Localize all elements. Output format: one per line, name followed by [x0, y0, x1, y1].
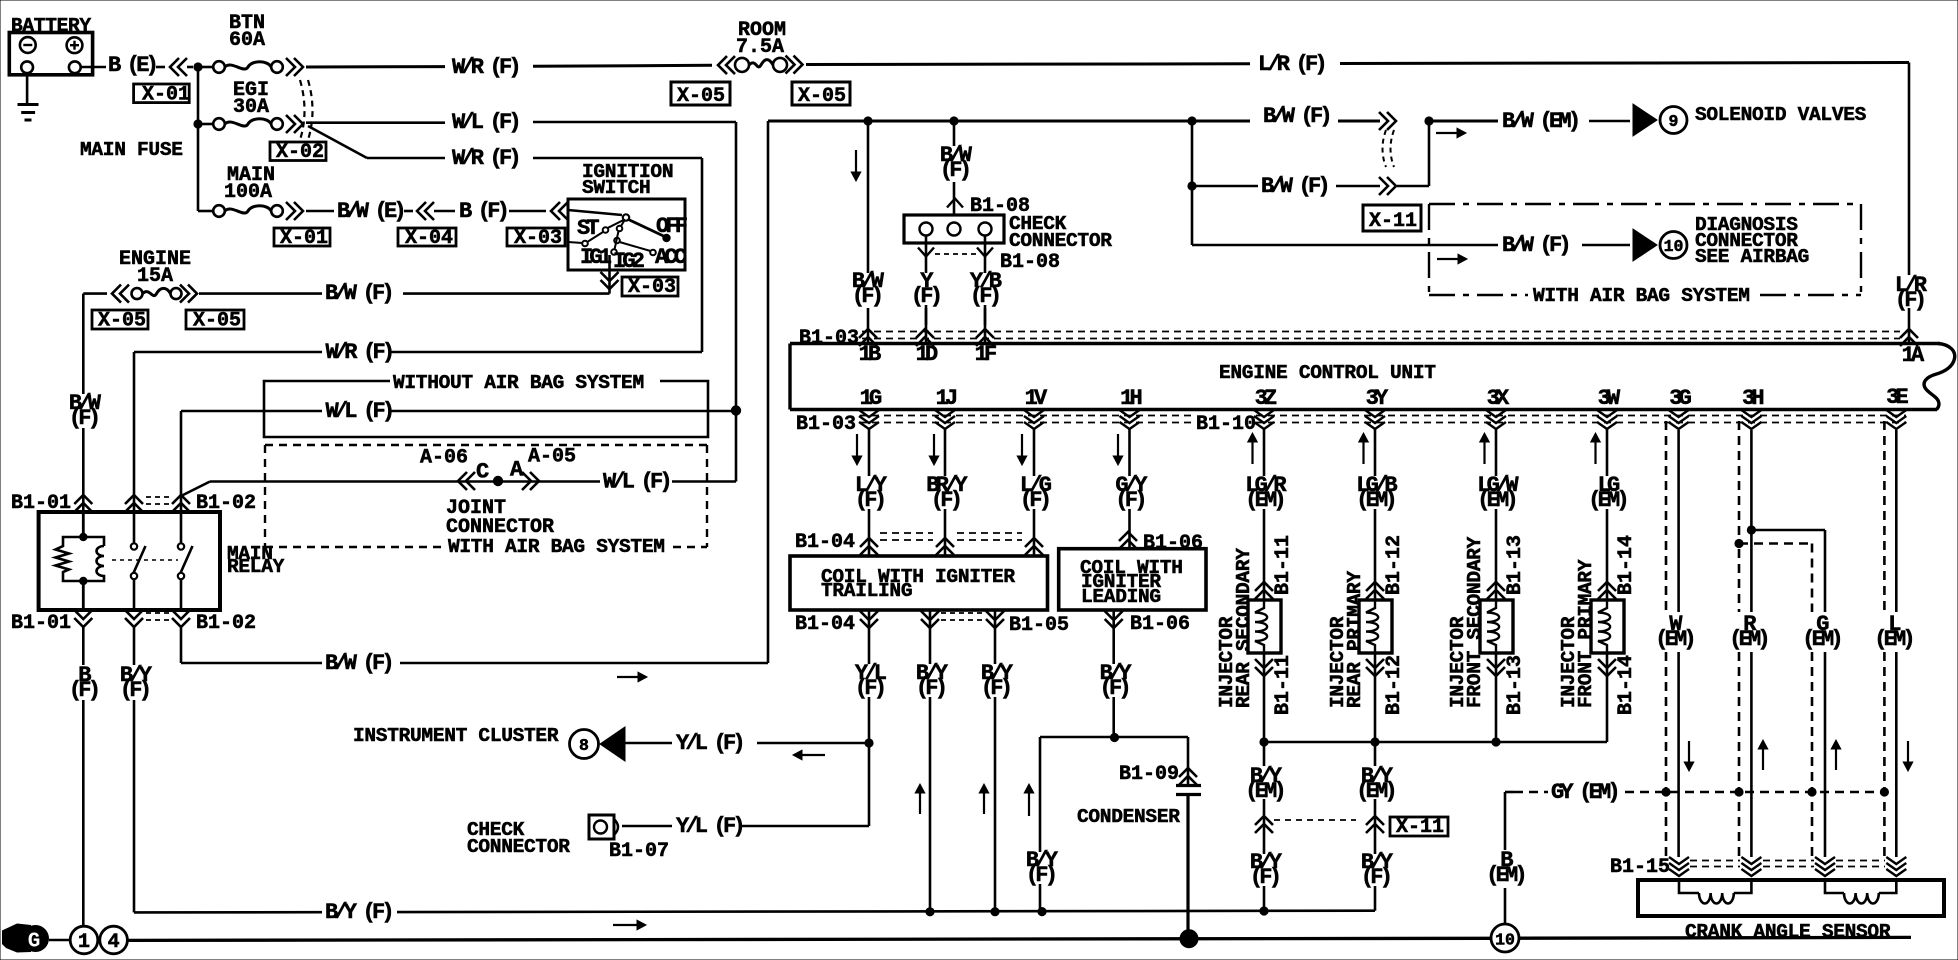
svg-text:B1-05: B1-05 [1009, 614, 1069, 637]
svg-text:B1-09: B1-09 [1119, 763, 1179, 786]
svg-text:(EM): (EM) [1729, 627, 1767, 652]
svg-text:W/R (F): W/R (F) [452, 146, 518, 171]
svg-text:9: 9 [1669, 112, 1679, 131]
svg-text:(F): (F) [69, 678, 98, 703]
svg-text:WITH AIR BAG SYSTEM: WITH AIR BAG SYSTEM [448, 536, 665, 558]
connector chevron at ECU pin 1A [1900, 329, 1918, 346]
wire B/Y (EM) injector rear 1 [1263, 742, 1266, 766]
connector box X-03 (2) [622, 277, 678, 296]
svg-text:1F: 1F [975, 342, 996, 367]
check connector B1-07 [589, 815, 614, 839]
wire Y/L (F) trailing coil output [868, 610, 871, 664]
connector dashed arcs X-11 [1383, 130, 1387, 167]
wire B/Y (F) condenser left [1039, 737, 1042, 912]
ignition switch OFF position [662, 234, 670, 242]
wire B/W (F) to ECU 1B [867, 121, 870, 274]
svg-text:RELAY: RELAY [227, 556, 285, 578]
connector B1-04 chevron 1G [860, 538, 878, 555]
connector X-11 chevron row1 [1379, 112, 1396, 130]
main relay [39, 512, 220, 610]
svg-text:3H: 3H [1742, 386, 1763, 411]
svg-text:1H: 1H [1120, 386, 1141, 411]
wire W/L vertical to relay x181 [180, 411, 183, 512]
svg-text:L/R (F): L/R (F) [1258, 52, 1324, 77]
svg-text:7.5A: 7.5A [736, 36, 784, 59]
flow arrow [1437, 258, 1460, 260]
svg-text:B/W (F): B/W (F) [325, 651, 391, 676]
svg-text:B1-12: B1-12 [1383, 535, 1406, 595]
wire B (F) [434, 210, 455, 213]
svg-text:1: 1 [78, 931, 90, 954]
ground circle 4 [100, 926, 128, 954]
wire B/W (E) [306, 210, 334, 213]
connector box X-05 (3) [92, 310, 148, 329]
svg-text:(F): (F) [1361, 865, 1390, 890]
svg-text:W/L (F): W/L (F) [603, 470, 669, 495]
connector box X-05 (1) [671, 82, 730, 105]
flow arrow B/W [617, 676, 640, 678]
svg-text:B1-07: B1-07 [609, 840, 669, 863]
wire Y/B (F) [964, 273, 1004, 305]
relay contact 2 [180, 512, 183, 543]
wire Y/L (F) to check connector B1-07 [740, 825, 869, 828]
svg-text:B/W (F): B/W (F) [325, 281, 391, 306]
svg-text:B1-03: B1-03 [796, 413, 856, 436]
connector X-03 chevron [551, 202, 568, 220]
ignition switch contact ST [582, 241, 588, 247]
svg-text:FRONT PRIMARY: FRONT PRIMARY [1575, 559, 1597, 708]
svg-text:TRAILING: TRAILING [821, 580, 912, 602]
svg-text:Y/L (F): Y/L (F) [676, 814, 742, 839]
wire 3H dashed [1738, 421, 1741, 538]
svg-text:X-11: X-11 [1369, 210, 1417, 233]
engine control unit [1924, 344, 1955, 410]
svg-text:B (E): B (E) [108, 53, 156, 78]
svg-text:(F): (F) [69, 406, 98, 431]
injector front secondary B1-13 [1495, 428, 1498, 476]
svg-text:CONNECTOR: CONNECTOR [467, 836, 570, 858]
connector dashed arcs X-02 [300, 80, 305, 140]
svg-text:CONDENSER: CONDENSER [1077, 806, 1180, 828]
svg-text:B1-03: B1-03 [799, 327, 859, 350]
svg-text:60A: 60A [229, 29, 265, 52]
circuit ref 10 (bottom) [1491, 924, 1519, 952]
coil with igniter trailing [790, 556, 1048, 610]
svg-text:G: G [28, 931, 41, 954]
wire diagonal EGI to W/R row [308, 126, 367, 158]
connector X-11 chevron row2 [1379, 177, 1396, 195]
svg-text:B1-14: B1-14 [1615, 655, 1638, 715]
wire W/R vertical to relay x134 [133, 352, 136, 512]
circuit ref 8 instrument cluster [570, 730, 599, 759]
wire L/G (F) pin 1V [1033, 428, 1036, 476]
wire G/Y (F) pin 1H [1128, 428, 1131, 476]
svg-text:(F): (F) [970, 284, 999, 309]
wire G (EM) solid branch [1751, 529, 1825, 532]
wire L/R (F) vertical right [1908, 63, 1911, 276]
svg-text:B1-04: B1-04 [795, 531, 855, 554]
wire Y (F) [908, 273, 942, 305]
connector box X-01 (2) [274, 228, 330, 246]
wire B/Y (F) coil 2 [994, 610, 997, 664]
svg-text:INSTRUMENT CLUSTER: INSTRUMENT CLUSTER [353, 725, 559, 747]
connector box X-01 [134, 84, 190, 103]
svg-text:X-04: X-04 [405, 227, 453, 250]
svg-text:X-05: X-05 [98, 310, 146, 333]
box WITH AIR BAG SYSTEM (dashed) [265, 444, 707, 446]
svg-text:W/L (F): W/L (F) [326, 399, 392, 424]
wire W/L vertical x736 [735, 122, 738, 482]
wire B (EM) to circle 10 [1504, 792, 1507, 850]
dash-dot box WITH AIR BAG SYSTEM (right) [1429, 203, 1861, 205]
svg-text:LEADING: LEADING [1081, 586, 1161, 608]
injector front primary B1-14 [1606, 428, 1609, 476]
wire ground stub [49, 939, 71, 942]
svg-text:CONNECTOR: CONNECTOR [1009, 230, 1112, 252]
injector rear secondary B1-11 [1263, 428, 1266, 476]
svg-text:X-05: X-05 [193, 310, 241, 333]
svg-text:WITH AIR BAG SYSTEM: WITH AIR BAG SYSTEM [1533, 285, 1750, 307]
svg-text:X-02: X-02 [276, 141, 324, 164]
svg-text:Y/L (F): Y/L (F) [676, 731, 742, 756]
svg-text:X-05: X-05 [798, 85, 846, 108]
svg-text:B/W (E): B/W (E) [337, 199, 403, 224]
svg-text:(EM): (EM) [1874, 627, 1912, 652]
wire vertical x702 [701, 158, 704, 352]
svg-text:W/R (F): W/R (F) [326, 340, 392, 365]
wire 3E dashed [1883, 421, 1886, 612]
wire B/Y (F) leading coil output [1112, 610, 1115, 664]
circuit ref 10 diagnosis connector [1660, 232, 1687, 259]
wire BR/Y (F) pin 1J [944, 428, 947, 476]
wire B/Y (F) bottom row [134, 911, 322, 914]
svg-text:X-01: X-01 [142, 84, 190, 107]
svg-text:IG1: IG1 [580, 245, 612, 270]
svg-text:FRONT SECONDARY: FRONT SECONDARY [1464, 536, 1486, 708]
arrow to solenoid valves [1633, 104, 1657, 136]
wire B/W (F) vertical to relay coil [82, 294, 85, 394]
svg-text:100A: 100A [224, 181, 272, 204]
connector X-03 chevron (ignition) [601, 272, 619, 289]
box WITHOUT AIR BAG SYSTEM [264, 381, 708, 437]
svg-text:SWITCH: SWITCH [582, 177, 650, 199]
wire W/R (F) to ignition area [367, 157, 445, 160]
condenser [1176, 784, 1201, 787]
svg-text:X-03: X-03 [628, 276, 676, 299]
connector B1-09 chevron [1187, 737, 1190, 786]
svg-text:B1-14: B1-14 [1615, 535, 1638, 595]
svg-text:(F): (F) [911, 284, 940, 309]
svg-text:B1-08: B1-08 [1000, 251, 1060, 274]
svg-text:X-05: X-05 [677, 85, 725, 108]
svg-text:(EM): (EM) [1486, 863, 1524, 888]
svg-text:ENGINE CONTROL UNIT: ENGINE CONTROL UNIT [1219, 362, 1436, 384]
svg-text:B1-13: B1-13 [1504, 655, 1527, 715]
wire B/W vertical x768 [767, 121, 770, 663]
wire W (EM) solid [1677, 430, 1680, 612]
wire L (EM) solid [1895, 430, 1898, 612]
svg-text:B1-12: B1-12 [1383, 655, 1406, 715]
ground (battery) [26, 73, 29, 104]
joint connector A-06 chevron [458, 472, 475, 490]
node: main fuse bus [193, 62, 202, 71]
wire W/L (F) row (EGI output) [306, 121, 445, 124]
svg-text:X-11: X-11 [1396, 816, 1444, 839]
svg-text:10: 10 [1495, 931, 1515, 950]
svg-text:15A: 15A [137, 265, 173, 288]
svg-text:(F): (F) [1250, 865, 1279, 890]
svg-text:B1-06: B1-06 [1143, 532, 1203, 555]
svg-text:OFF: OFF [656, 214, 687, 239]
svg-text:(EM): (EM) [1655, 627, 1693, 652]
connector box X-04 [398, 228, 456, 246]
svg-text:W/L (F): W/L (F) [452, 110, 518, 135]
connector X-11 dashed link [1274, 819, 1356, 821]
arrow to instrument cluster [600, 727, 625, 761]
ignition switch output wire [608, 255, 611, 294]
circuit ref 9 solenoid valves [1660, 107, 1687, 134]
wire B/W (F) relay output row [180, 625, 183, 663]
wire W/R (F) row1 [306, 65, 445, 68]
flow arrow [1436, 132, 1459, 134]
svg-text:A-05: A-05 [528, 446, 576, 469]
wire B/Y (F) relay output [133, 625, 136, 665]
svg-text:30A: 30A [233, 96, 269, 119]
joint connector A-05 chevron [522, 472, 539, 490]
connector B1-08 chevron (top) [947, 199, 963, 208]
svg-text:B1-13: B1-13 [1504, 535, 1527, 595]
svg-text:A-06: A-06 [420, 447, 468, 470]
connector B1-06 (bottom) [1105, 611, 1123, 628]
svg-text:W/R (F): W/R (F) [452, 55, 518, 80]
svg-text:B1-06: B1-06 [1130, 613, 1190, 636]
svg-text:(F): (F) [940, 158, 969, 183]
wire diagonal to B1-02 [181, 482, 210, 497]
wire B/Y (EM) injector rear 2 [1374, 742, 1377, 766]
connector box X-05 (4) [186, 310, 244, 329]
connector box X-03 [507, 228, 565, 246]
relay coil branch [82, 512, 85, 537]
svg-text:10: 10 [1664, 237, 1684, 256]
svg-text:ACC: ACC [655, 245, 687, 270]
svg-text:1J: 1J [936, 386, 956, 411]
connector X-04 chevron [417, 202, 434, 220]
wire GY (EM) dashed [1505, 791, 1514, 794]
svg-text:REAR SECONDARY: REAR SECONDARY [1233, 548, 1255, 708]
svg-text:SOLENOID VALVES: SOLENOID VALVES [1695, 104, 1867, 126]
svg-text:IG2: IG2 [613, 249, 644, 274]
svg-text:B (F): B (F) [459, 199, 507, 224]
svg-text:MAIN FUSE: MAIN FUSE [80, 139, 183, 161]
svg-text:B/W (EM): B/W (EM) [1502, 109, 1578, 134]
node W/L junction [731, 405, 741, 415]
svg-text:REAR PRIMARY: REAR PRIMARY [1344, 571, 1366, 708]
wire Y/L (F) to cluster [625, 742, 672, 745]
connector box X-05 (2) [792, 82, 850, 105]
svg-text:8: 8 [579, 736, 589, 755]
ground G [2, 924, 31, 953]
svg-text:B1-10: B1-10 [1196, 413, 1256, 436]
wire condenser top [1040, 736, 1188, 739]
wire G dashed branch [1739, 542, 1812, 545]
svg-text:CONNECTOR: CONNECTOR [446, 516, 554, 539]
connector X-01 chevron [170, 58, 187, 76]
connector B1-06 chevron top [1119, 532, 1137, 549]
svg-text:WITHOUT AIR BAG SYSTEM: WITHOUT AIR BAG SYSTEM [393, 372, 644, 394]
wire W/L (F) row y411 [181, 410, 322, 413]
connector B1-05 (bottom) [921, 611, 939, 628]
svg-text:4: 4 [108, 931, 120, 954]
ground circle 1 [70, 926, 98, 954]
connector box X-11 (2) [1390, 817, 1448, 836]
wire B/W (F) second row [1191, 121, 1194, 245]
arrow to diagnosis connector [1633, 229, 1657, 261]
injector rear primary B1-12 [1374, 428, 1377, 476]
svg-text:X-03: X-03 [514, 227, 562, 250]
svg-text:B1-02: B1-02 [196, 612, 256, 635]
svg-text:(F): (F) [852, 284, 881, 309]
check connector B1-08 [904, 215, 1004, 243]
svg-text:B1-01: B1-01 [11, 612, 71, 635]
svg-text:B1-15: B1-15 [1610, 856, 1670, 879]
wire B/W (F) top distribution [768, 120, 1250, 123]
svg-text:CRANK ANGLE SENSOR: CRANK ANGLE SENSOR [1685, 921, 1891, 943]
wire injector rail [1264, 741, 1607, 744]
svg-text:B/W (F): B/W (F) [1263, 104, 1329, 129]
node joint connector [493, 476, 503, 486]
crank angle sensor [1638, 880, 1944, 916]
svg-text:(F): (F) [120, 678, 149, 703]
svg-text:(EM): (EM) [1802, 627, 1840, 652]
svg-text:B/Y (F): B/Y (F) [325, 900, 391, 925]
connector box X-11 [1363, 205, 1421, 231]
wire B (F) relay to ground [82, 625, 85, 665]
wire B (E) [81, 66, 106, 69]
svg-text:B1-11: B1-11 [1272, 655, 1295, 715]
wire W/R (F) row y352 [134, 351, 322, 354]
svg-text:B1-04: B1-04 [795, 613, 855, 636]
connector B1-02 (top) [125, 495, 143, 512]
connector box X-02 [270, 142, 326, 161]
svg-text:B/W (F): B/W (F) [1261, 174, 1327, 199]
connector B1-08 chevrons (bottom) [925, 236, 928, 326]
wire W/R(F)-L/R(F) top line [806, 62, 1250, 66]
connector B1-02 (bottom) [125, 610, 143, 627]
relay contact 1 [133, 512, 136, 543]
wire R (EM) solid [1750, 430, 1753, 612]
wire L/Y (F) pin 1G [868, 428, 871, 476]
wire B/Y (F) coil 1 [929, 610, 932, 664]
svg-text:B/W (F): B/W (F) [1502, 233, 1568, 258]
svg-text:B1-11: B1-11 [1272, 535, 1295, 595]
svg-text:(F): (F) [1026, 863, 1055, 888]
wire B/W (F) diagnosis row [1192, 244, 1498, 247]
node bus junction [1180, 929, 1199, 948]
flow arrow bus [613, 924, 639, 926]
wire W/L (F) joint connector row [672, 480, 736, 483]
coil with igniter leading [1059, 549, 1206, 610]
wire 3G dashed [1665, 421, 1668, 612]
wire B/W (F) to check connector [953, 121, 956, 146]
wire B/W (F) engine fuse [83, 292, 107, 295]
svg-text:GY (EM): GY (EM) [1551, 780, 1617, 805]
wire ground bus [128, 938, 1492, 940]
relay linkage (dashed) [112, 559, 178, 561]
svg-text:SEE AIRBAG: SEE AIRBAG [1695, 246, 1809, 268]
svg-text:X-01: X-01 [280, 227, 328, 250]
